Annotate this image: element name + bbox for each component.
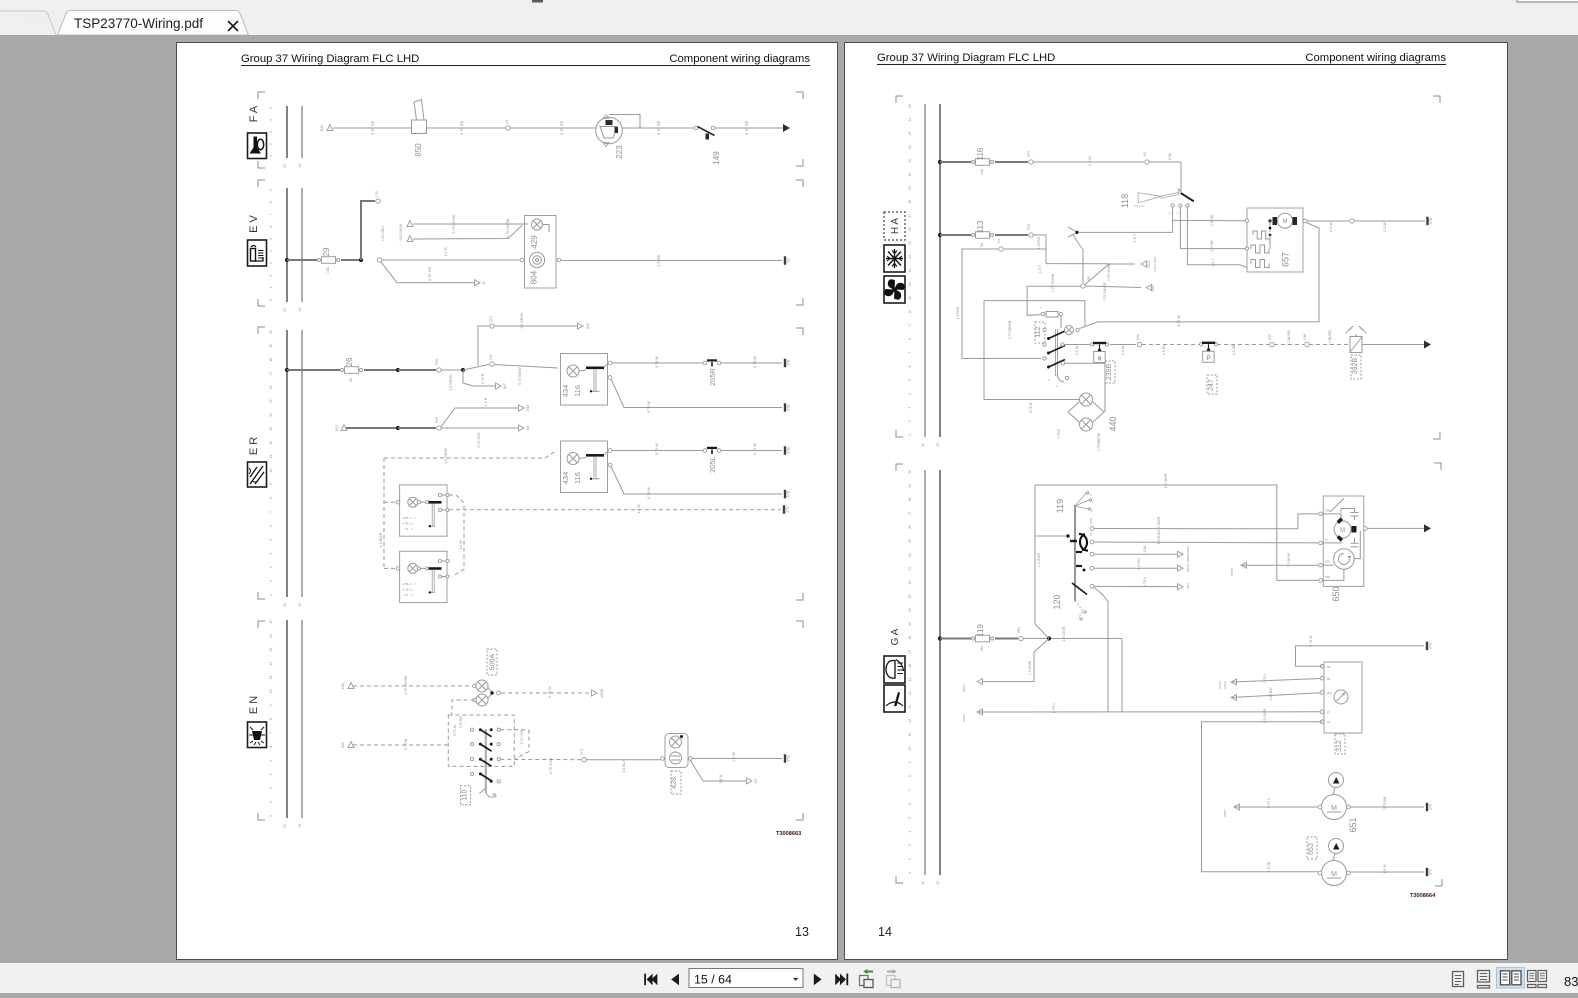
svg-text:T3008663: T3008663 bbox=[776, 831, 801, 837]
pin X2 row bbox=[1076, 565, 1082, 567]
branch 0.75 SB bbox=[381, 262, 474, 283]
wire to RB53 bbox=[1094, 553, 1178, 555]
signal lamp on 112 bbox=[1065, 326, 1080, 335]
svg-text:30: 30 bbox=[921, 881, 925, 885]
svg-text:3: 3 bbox=[908, 406, 912, 408]
svg-text:8: 8 bbox=[908, 338, 912, 340]
lamps 440 bbox=[1068, 393, 1118, 432]
wire bbox=[364, 369, 398, 371]
svg-text:M: M bbox=[1331, 805, 1337, 812]
dashed wire to 500A bbox=[353, 685, 474, 687]
svg-text:30: 30 bbox=[283, 603, 287, 607]
svg-text:247: 247 bbox=[1208, 379, 1215, 391]
svg-text:0.75 BL: 0.75 BL bbox=[404, 738, 408, 750]
wire 428 to ground bbox=[693, 758, 783, 760]
svg-text:5: 5 bbox=[908, 817, 912, 819]
wire bbox=[1110, 344, 1136, 346]
lamp/lighter unit 429 / 804 bbox=[520, 216, 561, 289]
toolbar icon fragment top center bbox=[532, 0, 543, 3]
svg-text:37B: 37B bbox=[787, 755, 791, 762]
svg-text:8: 8 bbox=[908, 775, 912, 777]
wire out 651 bbox=[1351, 806, 1425, 808]
svg-text:14: 14 bbox=[908, 255, 912, 259]
svg-text:0.75 BL: 0.75 BL bbox=[453, 724, 457, 735]
svg-text:1: 1 bbox=[269, 287, 273, 289]
svg-text:18: 18 bbox=[269, 358, 273, 362]
svg-text:10: 10 bbox=[908, 310, 912, 314]
svg-text:0.75 W: 0.75 W bbox=[753, 356, 757, 368]
svg-text:21: 21 bbox=[908, 594, 912, 598]
dashed vertical bbox=[383, 458, 385, 568]
svg-text:9: 9 bbox=[908, 761, 912, 763]
svg-text:15: 15 bbox=[298, 164, 302, 168]
svg-text:0.75 Y: 0.75 Y bbox=[1263, 672, 1267, 682]
svg-text:10A: 10A bbox=[980, 168, 984, 175]
pin 15 row bbox=[1090, 540, 1094, 544]
svg-text:10: 10 bbox=[269, 689, 273, 693]
svg-text:15 / 64: 15 / 64 bbox=[694, 973, 732, 987]
svg-text:1.5 BL: 1.5 BL bbox=[1121, 345, 1125, 355]
svg-text:8: 8 bbox=[269, 201, 273, 203]
svg-text:0.75 W: 0.75 W bbox=[753, 443, 757, 455]
wire pin2 to 657 bbox=[1180, 207, 1246, 249]
svg-text:85: 85 bbox=[1327, 665, 1331, 669]
svg-text:53E: 53E bbox=[1325, 560, 1330, 564]
svg-text:M: M bbox=[1340, 528, 1345, 534]
svg-text:30: 30 bbox=[283, 164, 287, 168]
svg-text:C6A: C6A bbox=[1136, 333, 1140, 340]
arrow RB35 to 53E bbox=[1241, 562, 1247, 568]
fuse 119 bbox=[972, 624, 994, 652]
pin row 120 bbox=[1090, 584, 1094, 588]
wire 112 row3 to 440 bbox=[1061, 362, 1064, 365]
svg-text:GB7: GB7 bbox=[1186, 583, 1190, 589]
svg-text:C32: C32 bbox=[489, 354, 493, 360]
svg-text:PF3: PF3 bbox=[1027, 151, 1031, 157]
svg-text:500A: 500A bbox=[490, 654, 497, 671]
svg-text:15: 15 bbox=[298, 824, 302, 828]
wire bbox=[1094, 514, 1318, 529]
wiper motor 650 bbox=[1319, 496, 1364, 602]
svg-text:11: 11 bbox=[908, 733, 912, 737]
svg-text:53R: 53R bbox=[1325, 575, 1330, 579]
wire 657 to ground bbox=[1307, 220, 1349, 222]
wire to 205R bbox=[612, 362, 703, 364]
wire stub to C15 bbox=[361, 201, 375, 260]
svg-text:C15: C15 bbox=[375, 191, 379, 197]
node join bbox=[488, 688, 492, 699]
svg-text:17: 17 bbox=[908, 650, 912, 654]
next-page button bbox=[814, 974, 822, 986]
svg-text:0.75 GN/SB: 0.75 GN/SB bbox=[1107, 262, 1111, 281]
svg-text:G A: G A bbox=[890, 628, 901, 645]
headlamp washer pictogram bbox=[884, 656, 905, 683]
svg-text:1: 1 bbox=[269, 815, 273, 817]
svg-text:16: 16 bbox=[908, 227, 912, 231]
wire bbox=[721, 362, 782, 364]
svg-text:A1: A1 bbox=[1143, 152, 1147, 156]
svg-text:B12: B12 bbox=[586, 323, 590, 329]
svg-text:0.75 R: 0.75 R bbox=[1029, 402, 1033, 413]
svg-text:26: 26 bbox=[345, 357, 354, 366]
svg-text:435L 1 . 7: 435L 1 . 7 bbox=[403, 516, 417, 520]
svg-text:435L 1 . 7: 435L 1 . 7 bbox=[403, 582, 417, 586]
wire bbox=[427, 127, 506, 129]
svg-text:30: 30 bbox=[908, 470, 912, 474]
svg-text:P: P bbox=[1206, 355, 1210, 362]
lamp unit 434/116 upper bbox=[561, 354, 612, 406]
fuse 119 feed node bbox=[938, 636, 942, 640]
svg-text:16: 16 bbox=[269, 385, 273, 389]
svg-text:0: 0 bbox=[1048, 378, 1050, 382]
svg-text:15A: 15A bbox=[980, 645, 984, 652]
svg-text:CC1: CC1 bbox=[580, 749, 584, 756]
svg-text:0.75 BW: 0.75 BW bbox=[459, 716, 463, 728]
svg-text:1: 1 bbox=[269, 594, 273, 596]
wire pin1 to 657 bbox=[1172, 207, 1174, 232]
washer pump 653 bbox=[1307, 837, 1350, 886]
wire lamp return bbox=[543, 225, 549, 233]
svg-text:12: 12 bbox=[908, 719, 912, 723]
arrow out FA bbox=[783, 124, 790, 132]
svg-text:15: 15 bbox=[908, 677, 912, 681]
branch BAT bbox=[463, 370, 496, 386]
svg-text:20: 20 bbox=[269, 330, 273, 334]
connector PF3 bbox=[1029, 160, 1033, 164]
dashed link between 435 units bbox=[449, 495, 464, 577]
svg-text:1.5 BL: 1.5 BL bbox=[1162, 345, 1166, 355]
bus FA bbox=[269, 106, 302, 168]
continuous layout icon bbox=[1478, 971, 1490, 989]
svg-text:2: 2 bbox=[269, 580, 273, 582]
ground 37C bbox=[1427, 803, 1433, 811]
svg-text:RB35: RB35 bbox=[1230, 568, 1234, 576]
wire 120 riser bbox=[1094, 588, 1108, 713]
svg-text:6: 6 bbox=[908, 365, 912, 367]
lamp unit 434/116 lower bbox=[561, 441, 612, 493]
dashed wire long to ground bbox=[449, 509, 781, 511]
relay 312 bbox=[1320, 662, 1362, 754]
svg-text:1.5 Y: 1.5 Y bbox=[1038, 264, 1042, 273]
svg-text:4: 4 bbox=[908, 830, 912, 832]
switch 205R bbox=[703, 360, 721, 386]
fuse 26 bbox=[341, 357, 363, 382]
svg-text:PE3: PE3 bbox=[1027, 224, 1031, 230]
wire to switch 118 bbox=[1149, 162, 1181, 191]
switch 118 pins bbox=[1171, 204, 1174, 207]
wire bbox=[1023, 638, 1122, 640]
wire to 440 bbox=[984, 399, 1079, 401]
svg-text:0.75 BR: 0.75 BR bbox=[1383, 796, 1387, 809]
svg-text:30: 30 bbox=[921, 443, 925, 447]
svg-text:15: 15 bbox=[908, 241, 912, 245]
tab close button bbox=[229, 22, 238, 31]
svg-text:37C: 37C bbox=[1429, 868, 1433, 875]
svg-text:15: 15 bbox=[1089, 533, 1093, 537]
wire horn bypass bbox=[609, 115, 640, 129]
svg-text:26: 26 bbox=[908, 525, 912, 529]
svg-text:3: 3 bbox=[269, 262, 273, 264]
svg-text:429: 429 bbox=[530, 235, 539, 249]
svg-text:4: 4 bbox=[269, 773, 273, 775]
ground 37B bbox=[1428, 217, 1434, 225]
svg-text:15: 15 bbox=[936, 443, 940, 447]
svg-text:RB35 RB53: RB35 RB53 bbox=[1186, 546, 1190, 562]
wire to 804 bbox=[382, 259, 524, 261]
svg-text:0.75 GR/SB: 0.75 GR/SB bbox=[1008, 320, 1012, 339]
svg-text:37C: 37C bbox=[1429, 803, 1433, 810]
wire riser to 440 bbox=[983, 301, 985, 400]
svg-text:651: 651 bbox=[1348, 817, 1358, 832]
svg-text:1.0 R/W: 1.0 R/W bbox=[1157, 531, 1161, 545]
svg-text:239B: 239B bbox=[1106, 364, 1113, 381]
wire bbox=[995, 234, 1028, 236]
fuse 113 feed node bbox=[938, 233, 942, 237]
ground 31 bbox=[785, 256, 791, 264]
svg-text:0.75 Y: 0.75 Y bbox=[1052, 702, 1056, 713]
svg-text:29: 29 bbox=[908, 484, 912, 488]
svg-text:223: 223 bbox=[615, 145, 624, 159]
svg-text:0.75 W: 0.75 W bbox=[647, 487, 651, 499]
svg-text:0.75 R: 0.75 R bbox=[481, 373, 485, 384]
svg-text:8: 8 bbox=[269, 497, 273, 499]
svg-text:7: 7 bbox=[1040, 306, 1042, 310]
svg-text:CE14: CE14 bbox=[1147, 260, 1151, 268]
fuse on 112 bbox=[1040, 306, 1063, 328]
svg-text:13: 13 bbox=[269, 648, 273, 652]
svg-text:12: 12 bbox=[269, 441, 273, 445]
svg-text:53B: 53B bbox=[1325, 508, 1330, 512]
svg-text:23: 23 bbox=[908, 131, 912, 135]
svg-text:1.5 GN/R: 1.5 GN/R bbox=[1263, 708, 1267, 723]
svg-text:C3: C3 bbox=[997, 239, 1001, 243]
svg-text:8: 8 bbox=[269, 718, 273, 720]
wire row to 312 bbox=[977, 709, 983, 715]
arrow out bbox=[1424, 524, 1431, 532]
connector CC1 bbox=[582, 758, 586, 762]
svg-text:Group 37 Wiring Diagram FLC LH: Group 37 Wiring Diagram FLC LHD bbox=[241, 53, 419, 65]
svg-text:1.5 GR/W: 1.5 GR/W bbox=[449, 375, 453, 391]
svg-text:W6S: W6S bbox=[1151, 285, 1155, 292]
svg-text:1.0 BL/Y: 1.0 BL/Y bbox=[622, 759, 626, 773]
svg-text:0.75 SB: 0.75 SB bbox=[744, 121, 749, 136]
wire bus riser to 119 bbox=[1034, 485, 1036, 624]
svg-text:1.0 BL: 1.0 BL bbox=[1143, 545, 1147, 555]
svg-text:205L: 205L bbox=[708, 456, 717, 473]
svg-text:15: 15 bbox=[298, 603, 302, 607]
svg-text:110: 110 bbox=[462, 789, 469, 800]
svg-text:1.0 GN/R: 1.0 GN/R bbox=[1037, 552, 1041, 567]
routing wire to 112 lamp bbox=[984, 301, 1085, 327]
svg-text:22: 22 bbox=[908, 145, 912, 149]
svg-text:4: 4 bbox=[269, 119, 273, 121]
fuse 29 bbox=[318, 247, 340, 273]
svg-text:GB34: GB34 bbox=[962, 684, 966, 692]
svg-text:0.75 R/W: 0.75 R/W bbox=[477, 432, 481, 448]
wire bbox=[510, 127, 596, 129]
svg-text:GB27: GB27 bbox=[1223, 809, 1227, 817]
svg-text:0.75 W: 0.75 W bbox=[1177, 315, 1181, 327]
svg-text:E00: E00 bbox=[341, 742, 345, 748]
svg-text:F A: F A bbox=[248, 105, 260, 122]
svg-text:14: 14 bbox=[269, 413, 273, 417]
svg-text:0.75 SB: 0.75 SB bbox=[459, 121, 464, 136]
svg-text:4: 4 bbox=[269, 552, 273, 554]
node bbox=[359, 258, 363, 262]
wire bbox=[940, 161, 971, 163]
svg-text:1.5 SB: 1.5 SB bbox=[656, 255, 661, 267]
svg-text:6: 6 bbox=[269, 525, 273, 527]
svg-text:7: 7 bbox=[269, 511, 273, 513]
svg-text:653: 653 bbox=[1308, 843, 1315, 855]
switch 205L bbox=[703, 448, 721, 473]
last-page button bbox=[835, 974, 841, 986]
riser x1122 bbox=[1121, 639, 1123, 713]
lamp unit 435 lower bbox=[396, 551, 449, 602]
svg-text:87: 87 bbox=[1327, 710, 1331, 714]
svg-text:13: 13 bbox=[269, 427, 273, 431]
svg-text:149: 149 bbox=[712, 151, 721, 165]
wire loop back to C3 bbox=[1004, 235, 1046, 249]
snowflake pictogram bbox=[884, 245, 905, 272]
ground 37D bbox=[784, 505, 790, 513]
wire bbox=[341, 259, 361, 261]
svg-text:25: 25 bbox=[908, 539, 912, 543]
svg-text:3: 3 bbox=[269, 131, 273, 133]
svg-text:0: 0 bbox=[1091, 509, 1093, 513]
svg-text:6: 6 bbox=[908, 803, 912, 805]
switch 118 bbox=[1120, 189, 1194, 209]
svg-text:1.5 W: 1.5 W bbox=[1383, 864, 1387, 874]
wire pin3 to 657 bbox=[1187, 207, 1247, 268]
svg-text:119: 119 bbox=[976, 624, 985, 637]
ignition contact set bbox=[1066, 534, 1088, 551]
svg-text:1.5 R/W: 1.5 R/W bbox=[1037, 236, 1041, 249]
svg-text:0.75 Y: 0.75 Y bbox=[1267, 797, 1271, 808]
wire bbox=[398, 427, 436, 429]
svg-text:15: 15 bbox=[269, 399, 273, 403]
svg-text:0.75 GN/SB: 0.75 GN/SB bbox=[1051, 273, 1055, 292]
connector bbox=[1350, 219, 1354, 223]
svg-text:31: 31 bbox=[1327, 720, 1331, 724]
svg-text:27: 27 bbox=[908, 511, 912, 515]
svg-text:PB1: PB1 bbox=[1017, 627, 1021, 633]
svg-text:86: 86 bbox=[1327, 677, 1331, 681]
svg-text:E23: E23 bbox=[320, 125, 324, 131]
svg-text:6: 6 bbox=[269, 226, 273, 228]
svg-text:17: 17 bbox=[269, 372, 273, 376]
svg-text:1.0 BL/SB: 1.0 BL/SB bbox=[1287, 330, 1291, 346]
node bbox=[396, 426, 400, 430]
connector PH6 bbox=[437, 368, 441, 372]
svg-text:14: 14 bbox=[269, 634, 273, 638]
svg-text:1.0 R: 1.0 R bbox=[484, 397, 488, 406]
svg-text:C88: C88 bbox=[1303, 334, 1307, 340]
svg-text:W9: W9 bbox=[754, 778, 758, 783]
svg-text:392B: 392B bbox=[1352, 358, 1359, 375]
diagonal to C32 bbox=[463, 365, 489, 371]
svg-text:0.75 R: 0.75 R bbox=[1057, 428, 1061, 439]
svg-text:804: 804 bbox=[530, 270, 539, 284]
wire 312 pin85 to ground bbox=[1296, 646, 1425, 666]
wire out bbox=[1362, 344, 1424, 346]
svg-text:1.5 R: 1.5 R bbox=[443, 247, 448, 257]
wire top feed to 650 bbox=[1035, 485, 1319, 580]
next-view button (disabled) bbox=[887, 969, 901, 988]
washer pump 651 bbox=[1318, 773, 1358, 833]
svg-text:0.75 SB: 0.75 SB bbox=[427, 267, 432, 282]
svg-text:312: 312 bbox=[1336, 740, 1343, 752]
horn pictogram bbox=[248, 133, 267, 159]
svg-text:13: 13 bbox=[908, 269, 912, 273]
svg-text:1.0 BR/R: 1.0 BR/R bbox=[379, 532, 383, 547]
svg-text:650: 650 bbox=[1331, 586, 1341, 601]
svg-text:21: 21 bbox=[908, 159, 912, 163]
wire bbox=[287, 259, 317, 261]
ground 37C bbox=[1427, 868, 1433, 876]
svg-text:BAT: BAT bbox=[503, 383, 507, 389]
svg-text:1.5 W: 1.5 W bbox=[1088, 156, 1092, 166]
lighter unit 428 bbox=[661, 734, 693, 795]
svg-text:10: 10 bbox=[908, 747, 912, 751]
wire bbox=[995, 638, 1018, 640]
svg-text:1.5 BL: 1.5 BL bbox=[1075, 345, 1079, 355]
branch W9 bbox=[691, 761, 748, 782]
svg-text:1.5 W: 1.5 W bbox=[1168, 153, 1172, 163]
bus GA bbox=[908, 470, 940, 885]
connector C55 bbox=[1270, 342, 1274, 346]
svg-text:M: M bbox=[1331, 871, 1337, 878]
svg-text:LHD ONLY: LHD ONLY bbox=[381, 224, 385, 241]
svg-text:25: 25 bbox=[908, 104, 912, 108]
two-page layout icon (selected) bbox=[1497, 968, 1525, 989]
wire bbox=[721, 450, 782, 452]
svg-text:5: 5 bbox=[269, 539, 273, 541]
svg-text:T3008664: T3008664 bbox=[1410, 893, 1436, 899]
fuse 113 bbox=[972, 220, 994, 247]
svg-text:23: 23 bbox=[908, 567, 912, 571]
svg-text:2: 2 bbox=[908, 420, 912, 422]
svg-text:37B: 37B bbox=[1429, 217, 1433, 224]
svg-text:14: 14 bbox=[908, 691, 912, 695]
wire bbox=[1033, 161, 1144, 163]
svg-text:1.5 SB: 1.5 SB bbox=[1267, 861, 1271, 872]
svg-text:37B: 37B bbox=[787, 404, 791, 411]
connector bbox=[377, 258, 381, 262]
wire bbox=[494, 325, 578, 327]
svg-text:5: 5 bbox=[908, 379, 912, 381]
svg-text:GB34: GB34 bbox=[962, 714, 966, 722]
svg-text:28: 28 bbox=[908, 498, 912, 502]
connector C3 bbox=[999, 247, 1003, 251]
svg-text:850: 850 bbox=[414, 143, 423, 157]
svg-text:2: 2 bbox=[269, 274, 273, 276]
wire bbox=[1234, 806, 1318, 808]
svg-text:12: 12 bbox=[908, 282, 912, 286]
svg-text:W18: W18 bbox=[526, 405, 530, 412]
ground 37B bbox=[785, 490, 791, 498]
svg-text:2: 2 bbox=[269, 801, 273, 803]
lamp 500A bbox=[473, 649, 497, 692]
bus EV bbox=[269, 188, 302, 312]
svg-text:2.5 W: 2.5 W bbox=[1329, 222, 1333, 232]
connector PE3 bbox=[1029, 233, 1033, 237]
svg-text:3: 3 bbox=[269, 566, 273, 568]
svg-text:W4: W4 bbox=[526, 425, 530, 430]
wire lamp1 low side bbox=[611, 379, 782, 408]
svg-text:RB35: RB35 bbox=[1186, 564, 1190, 572]
dashed wire bbox=[1142, 344, 1200, 346]
